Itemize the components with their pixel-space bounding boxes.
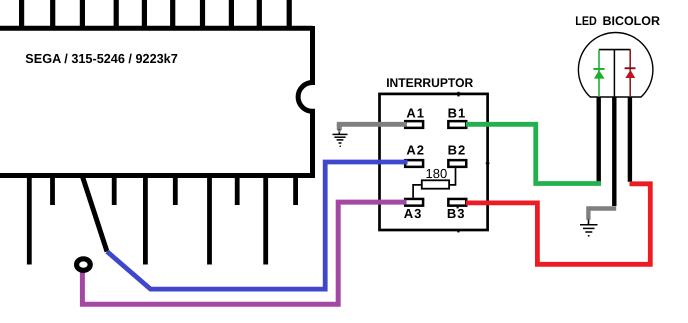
ground GND2 stub — [588, 220, 590, 225]
switch S1 box (INTERRUPTOR) — [380, 94, 488, 230]
IC U1 bottom pins — [29, 176, 295, 265]
resistor R1 wire to A3 — [413, 185, 421, 198]
LED D1 green cathode line — [598, 50, 600, 97]
pin A1 pad — [405, 121, 423, 128]
pin B3 pad — [448, 199, 466, 206]
LED D1 middle leg — [612, 97, 616, 206]
wire: purple from connector circle to A3 — [82, 202, 406, 304]
wire: gray stub taper — [337, 130, 342, 134]
LED D1 package outline (flat-bottom circle) — [578, 33, 653, 97]
pin B1 pad — [448, 121, 466, 128]
pad artifact nub under B3 — [457, 207, 459, 209]
LED D1 middle line — [613, 50, 615, 97]
svg-text:B2: B2 — [448, 143, 467, 158]
wire: gray ground stub — [337, 124, 342, 130]
wire: gray from ground to A1 — [337, 122, 406, 127]
svg-text:INTERRUPTOR: INTERRUPTOR — [386, 76, 473, 90]
resistor R1 wire to B2 — [450, 168, 456, 185]
ground GND1 stub — [338, 129, 340, 135]
LED D1 red cathode line — [629, 50, 631, 97]
resistor R1 body — [422, 180, 449, 188]
pin A2 pad — [405, 160, 423, 167]
wire: red from B3 around to LED red leg — [466, 184, 651, 264]
svg-text:B3: B3 — [447, 206, 466, 221]
wire: gray from LED middle leg to ground — [588, 209, 616, 220]
svg-text:A2: A2 — [406, 143, 425, 158]
node: open connector circle at bent pin — [77, 259, 91, 271]
LED D1 red diode symbol — [625, 67, 636, 78]
svg-text:A3: A3 — [404, 206, 423, 221]
IC U1 top pins — [22, 0, 290, 27]
LED D1 top rail — [599, 49, 631, 51]
svg-text:A1: A1 — [406, 106, 425, 121]
box artifact tick right — [486, 162, 490, 164]
pin A3 pad — [405, 199, 423, 206]
svg-text:LED: LED — [575, 14, 597, 28]
IC U1 bent pin 3 (diagonal lead) — [82, 176, 107, 252]
box artifact tick bottom — [457, 229, 459, 232]
ground GND2 (right earth symbol) — [580, 225, 598, 236]
svg-text:180: 180 — [426, 166, 448, 181]
box artifact tick top — [457, 92, 459, 97]
ground GND1 (left earth symbol) — [333, 134, 348, 146]
wire: green from B1 to LED green leg — [466, 124, 601, 183]
pin B2 pad — [448, 160, 466, 167]
svg-text:SEGA / 315-5246 / 9223k7: SEGA / 315-5246 / 9223k7 — [25, 51, 178, 66]
LED D1 right leg — [628, 97, 632, 182]
IC U1 body (SEGA chip outline with notch) — [0, 26, 315, 178]
wire: blue from bent pin to A2 — [107, 162, 408, 289]
svg-text:BICOLOR: BICOLOR — [603, 14, 661, 28]
svg-text:B1: B1 — [448, 106, 467, 121]
LED D1 green diode symbol — [593, 68, 604, 79]
LED D1 left leg — [597, 97, 601, 182]
